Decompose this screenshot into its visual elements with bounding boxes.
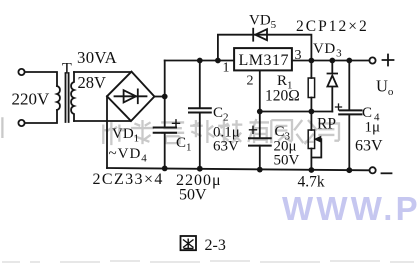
svg-text:LM317: LM317 (239, 52, 290, 69)
svg-text:VD5: VD5 (249, 13, 277, 32)
diode VD3 (328, 61, 338, 74)
node C1 bottom (162, 166, 168, 172)
node ADJ C3 (257, 109, 263, 115)
caption fig 2-3 (181, 236, 197, 250)
node bridge + output (162, 94, 168, 100)
wire top rail (165, 60, 234, 62)
watermark bottom faint line (2, 261, 414, 262)
node C4 top (346, 58, 352, 64)
diode VD5 (252, 29, 254, 41)
svg-text:220V: 220V (12, 90, 51, 109)
bridge inner diode (115, 95, 147, 97)
node C2 bottom (197, 166, 203, 172)
wire pin3 rail (292, 60, 369, 62)
op-amp U1 LM317 box (234, 48, 292, 70)
svg-text:30VA: 30VA (77, 48, 117, 67)
capacitor C4 riser (348, 61, 350, 171)
svg-text:63V: 63V (355, 138, 383, 155)
svg-text:2-3: 2-3 (205, 237, 226, 254)
main circuit ink (18, 29, 393, 174)
wire ADJ row (260, 111, 333, 113)
terminal input top (18, 69, 24, 75)
capacitor C3 riser (259, 112, 261, 170)
capacitor C4 plus (336, 104, 342, 110)
wire secondary top to bridge (74, 71, 132, 73)
transformer core (66, 73, 69, 122)
wire pin2 drop (259, 70, 261, 111)
node RP bottom (309, 167, 315, 173)
node R1 top (309, 58, 315, 64)
wire secondary bottom to bridge (74, 120, 131, 122)
potentiometer RP wiper (311, 139, 321, 157)
terminal output plus (369, 57, 375, 63)
wire input bottom (25, 110, 57, 123)
capacitor C4 plates (339, 110, 361, 114)
plus sign output (383, 55, 394, 66)
svg-text:Uo: Uo (376, 77, 394, 99)
diode VD5 loop wire (218, 35, 312, 61)
svg-text:63V: 63V (213, 139, 239, 155)
svg-text:1: 1 (223, 61, 230, 76)
svg-text:50V: 50V (179, 187, 207, 204)
wire input top (25, 72, 57, 86)
terminal input bottom (18, 120, 24, 126)
svg-text:28V: 28V (78, 73, 107, 92)
svg-text:3: 3 (295, 48, 302, 63)
svg-text:T: T (62, 61, 72, 78)
node ADJ R1 (309, 109, 315, 115)
wire bridge left vertex down to ground rail (106, 96, 108, 168)
wire C2 riser (199, 61, 201, 169)
potentiometer RP (310, 112, 312, 131)
bridge rectifier diamond (107, 72, 154, 121)
capacitor C3 plus (250, 126, 257, 133)
capacitor C1 plus (173, 120, 180, 127)
node C3 bottom (257, 167, 263, 173)
capacitor C2 plates (189, 108, 211, 112)
resistor R1 (310, 61, 312, 79)
wire C1 riser (164, 61, 166, 169)
wire bridge right vertex to C1 node (154, 96, 164, 98)
capacitor C1 plates (154, 128, 176, 133)
svg-text:WWW.P: WWW.P (282, 190, 419, 227)
svg-text:120Ω: 120Ω (265, 88, 300, 105)
svg-text:C2: C2 (213, 105, 229, 124)
svg-text:~VD4: ~VD4 (109, 146, 148, 165)
transformer primary winding (57, 86, 60, 110)
svg-text:2CP12×2: 2CP12×2 (296, 18, 369, 35)
svg-text:50V: 50V (274, 153, 300, 169)
node C4 bottom (346, 167, 352, 173)
node C2 top (197, 58, 203, 64)
svg-text:RP: RP (317, 116, 336, 133)
node VD5 left (215, 58, 221, 64)
minus sign output (382, 172, 392, 174)
capacitor C3 plates (249, 138, 271, 145)
watermark gray chinese text (0, 115, 339, 145)
terminal output minus (370, 167, 376, 173)
svg-text:1μ: 1μ (365, 120, 381, 136)
svg-text:2: 2 (247, 74, 254, 89)
svg-text:2CZ33×4: 2CZ33×4 (93, 171, 164, 188)
node VD3 top (329, 58, 335, 64)
wire ground rail (107, 168, 369, 170)
transformer secondary winding (71, 72, 74, 121)
svg-text:4.7k: 4.7k (298, 174, 325, 191)
svg-text:C1: C1 (176, 135, 192, 154)
svg-text:VD3: VD3 (313, 41, 342, 60)
